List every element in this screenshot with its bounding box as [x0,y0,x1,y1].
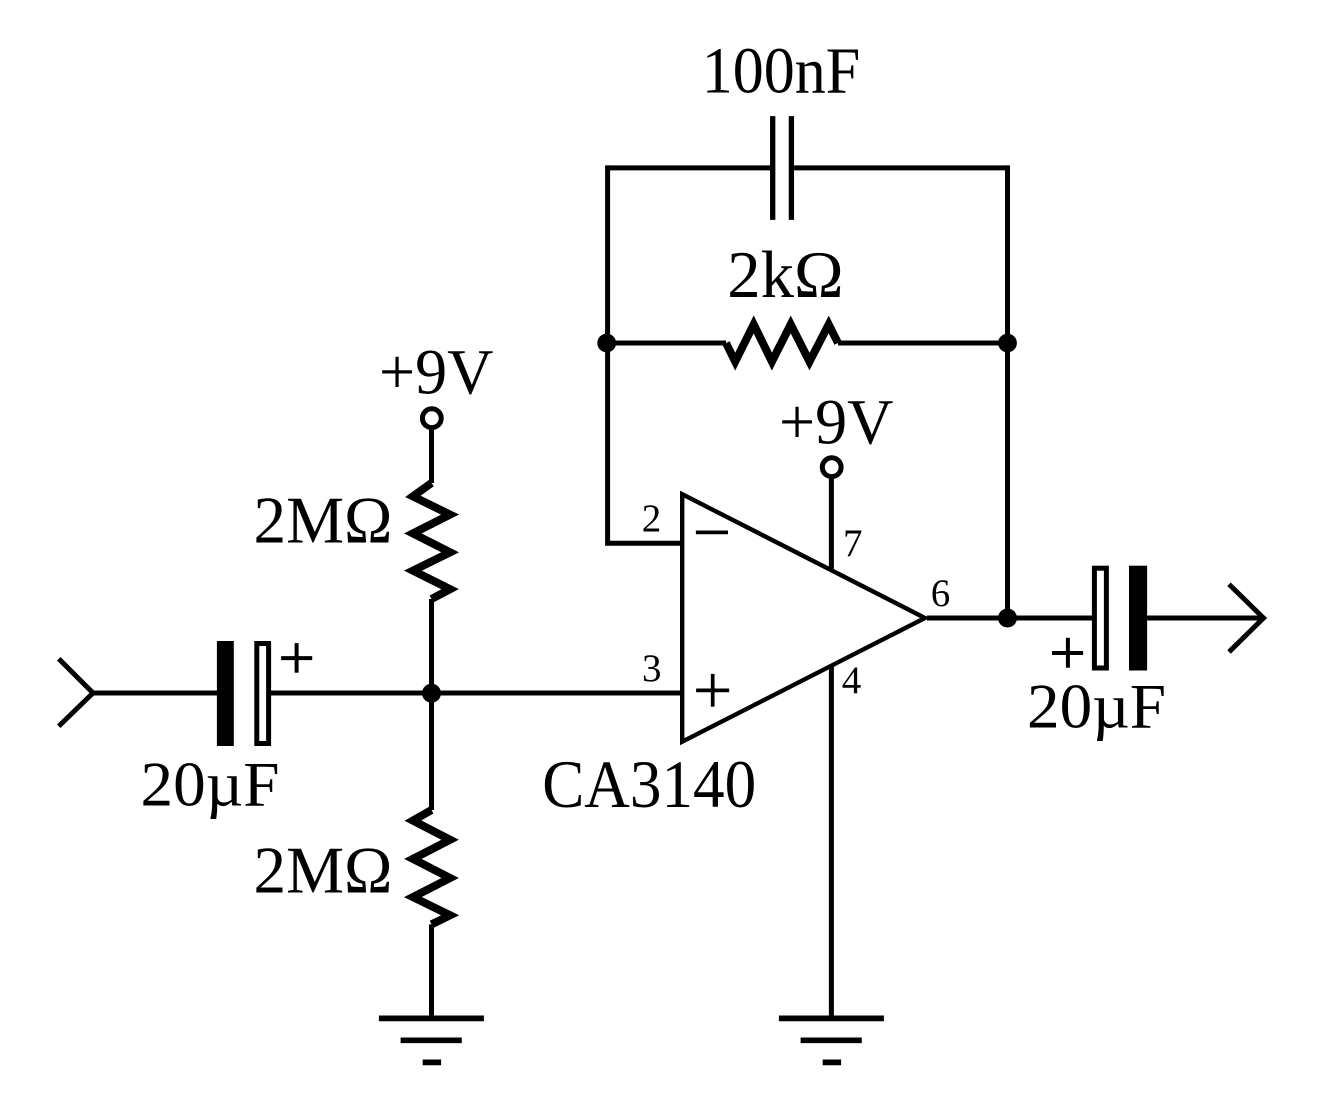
wire C1 to node A to op-amp pin 3 [269,691,682,696]
wire op-amp output [927,616,1094,621]
op-amp inverting input minus [696,531,728,535]
wire node A down to R3 [429,693,434,810]
capacitor C1 20uF filled plate [217,641,234,746]
svg-text:2MΩ: 2MΩ [254,834,393,908]
wire left node to R2 [608,341,726,346]
+9V terminal circle top [822,458,841,477]
svg-text:2kΩ: 2kΩ [727,238,843,312]
C1 polarity plus [281,643,312,673]
wire terminal to R1 [429,430,434,484]
C3 polarity plus [1052,638,1083,668]
capacitor C3 open plate [1094,568,1106,668]
input terminal chevron [61,661,94,725]
ground right [779,1018,884,1062]
svg-text:2MΩ: 2MΩ [254,484,393,558]
svg-text:+9V: +9V [779,387,893,459]
wire pin 7 supply [829,479,834,571]
svg-text:20µF: 20µF [1027,671,1166,742]
capacitor C3 filled plate [1129,566,1147,671]
svg-text:4: 4 [842,659,862,702]
svg-text:+9V: +9V [379,337,493,409]
wire input to C1 [92,691,218,696]
op-amp non-inverting input plus [696,674,729,707]
node D output junction dot [998,609,1017,628]
wire pin 2 from feedback [608,165,682,543]
capacitor C1 open plate [257,644,269,744]
output terminal chevron [1231,586,1264,650]
resistor R1 2M upper [413,483,450,599]
svg-text:100nF: 100nF [702,35,861,108]
wire R3 to ground [429,924,434,1018]
+9V terminal circle left [422,409,441,428]
feedback top wire left segment [608,165,771,170]
node A junction dot [422,684,441,703]
ground left [379,1018,484,1062]
svg-text:6: 6 [931,572,951,615]
capacitor C2 100nF plates [773,116,792,220]
feedback right vertical wire [1005,165,1010,618]
svg-text:20µF: 20µF [141,749,280,820]
op-amp U1 CA3140 triangle [682,494,925,742]
svg-text:7: 7 [843,522,863,565]
svg-text:3: 3 [642,647,662,690]
resistor R2 2k feedback [726,324,838,361]
wire R2 to right node [838,341,1008,346]
node B junction dot left [597,334,616,353]
svg-text:2: 2 [642,497,662,540]
feedback top wire right segment [794,165,1007,170]
wire R1 to node A [429,599,434,693]
svg-text:CA3140: CA3140 [542,746,756,822]
resistor R3 2M lower [413,810,450,924]
node C junction dot right [998,334,1017,353]
wire pin 4 to ground [829,665,834,1018]
wire C3 to output terminal [1147,616,1262,621]
